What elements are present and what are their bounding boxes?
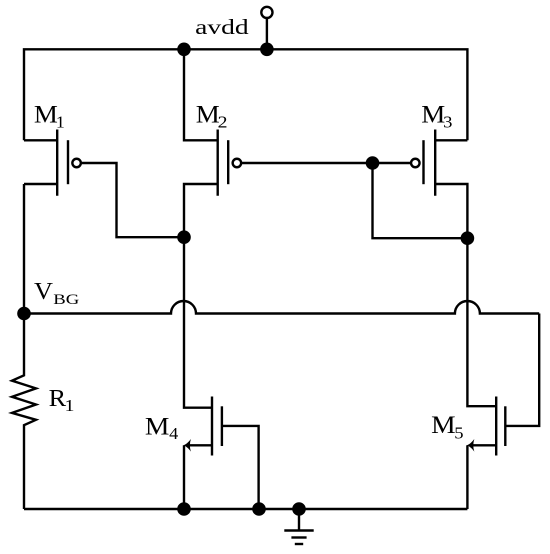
label M3 (421, 101, 452, 131)
wire M3 drain to M5 drain (467, 238, 496, 406)
svg-text:4: 4 (169, 424, 179, 443)
wire M4 gate lead (222, 426, 259, 509)
label avdd (195, 15, 249, 39)
wire ground rail (24, 508, 467, 510)
resistor R1 (12, 314, 36, 510)
wire M2 gate to mirror node (241, 162, 372, 164)
svg-text:M: M (421, 101, 445, 128)
label M5 (431, 412, 463, 443)
svg-text:2: 2 (218, 113, 228, 132)
wire M1 gate lead (81, 163, 184, 237)
label R1 (49, 385, 75, 415)
node avdd junction dot (260, 43, 274, 57)
wire M5 gate lead (505, 314, 539, 426)
wire M4 source to ground rail (183, 445, 185, 509)
label M2 (196, 101, 228, 131)
node M4 source junction dot (177, 502, 191, 516)
svg-text:1: 1 (56, 113, 65, 132)
node VBG junction dot (17, 307, 31, 321)
node M2 source junction dot (177, 43, 191, 57)
svg-text:M: M (34, 101, 58, 128)
svg-text:1: 1 (65, 396, 75, 415)
node mirror junction dot (177, 230, 191, 244)
svg-text:M: M (431, 412, 456, 439)
transistor M1 (PMOS) (24, 130, 81, 196)
transistor M4 (NMOS) (183, 397, 222, 456)
svg-text:avdd: avdd (195, 15, 249, 39)
label VBG (34, 278, 80, 308)
transistor M3 (PMOS, mirrored) (411, 130, 467, 238)
ground (284, 509, 313, 544)
svg-text:3: 3 (443, 113, 452, 132)
transistor M2 (PMOS) (184, 49, 241, 237)
wire M1 drain to VBG node (23, 184, 25, 314)
node M3 drain junction dot (461, 231, 475, 245)
svg-text:5: 5 (454, 424, 463, 443)
svg-text:V: V (34, 278, 53, 305)
label M1 (34, 101, 65, 131)
wire mirror node to M4 drain (184, 237, 212, 408)
node ground junction dot (292, 502, 306, 516)
wire M5 source to ground rail (466, 445, 468, 509)
wire VBG rail with hops (24, 301, 539, 314)
wire M3 gate lead (373, 162, 412, 164)
svg-text:BG: BG (53, 292, 80, 308)
svg-text:M: M (145, 414, 170, 441)
node M4 gate junction dot (252, 502, 266, 516)
wire M3 gate-drain tie (373, 163, 468, 238)
svg-text:M: M (196, 101, 220, 128)
node gate net junction dot (366, 156, 380, 170)
wire avdd top rail (24, 49, 467, 140)
avdd supply terminal (261, 7, 272, 50)
label M4 (145, 414, 179, 443)
transistor M5 (NMOS) (467, 397, 506, 456)
